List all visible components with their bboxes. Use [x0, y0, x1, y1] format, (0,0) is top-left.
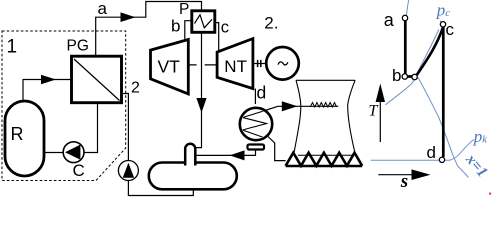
svg-text:1: 1 — [7, 37, 18, 58]
svg-text:a: a — [98, 0, 108, 18]
condenser — [240, 108, 272, 140]
arrow down on steam line — [196, 98, 206, 113]
basin fill zigzag — [286, 153, 363, 166]
svg-text:P: P — [179, 1, 189, 18]
svg-text:T: T — [369, 103, 379, 120]
cooling tower shell — [294, 80, 355, 152]
svg-text:s: s — [400, 171, 408, 192]
dashed boundary of primary circuit box 1 — [2, 31, 126, 181]
svg-text:c: c — [221, 19, 229, 37]
cycle line c-d — [442, 27, 445, 157]
svg-text:b: b — [392, 66, 401, 85]
svg-text:C: C — [73, 161, 85, 180]
pump C — [63, 142, 84, 163]
main steam wire a — [96, 2, 202, 57]
svg-text:NT: NT — [224, 57, 247, 76]
steam generator PG — [72, 56, 122, 102]
blue isobar p_k — [371, 140, 474, 161]
shaft VT-NT — [188, 64, 217, 66]
cooling water return to basin — [268, 137, 286, 161]
condensate tank — [149, 163, 237, 190]
valve P box — [192, 11, 215, 33]
T axis — [379, 101, 381, 142]
node c — [440, 22, 445, 27]
wire b stub — [185, 21, 192, 41]
feed pump — [118, 161, 138, 181]
cycle line b'-c reheat — [417, 28, 443, 75]
condensate line to tank — [195, 150, 256, 156]
blue isobar p_c — [440, 21, 444, 27]
reactor vessel R — [5, 101, 44, 176]
svg-text:2: 2 — [131, 80, 140, 97]
node b — [402, 74, 407, 79]
arrow on steam wire — [121, 12, 136, 22]
blue saturation dome with x=1 branch — [386, 77, 469, 177]
stray magenta pixel — [489, 193, 491, 195]
feedwater line tank to pump to PG — [122, 94, 194, 196]
wire R top to PG — [23, 80, 71, 102]
svg-text:R: R — [11, 124, 24, 144]
svg-text:c: c — [446, 20, 455, 39]
svg-text:2.: 2. — [264, 14, 278, 33]
cycle line b-b' — [405, 75, 415, 78]
shaft NT-generator with coupling — [253, 63, 266, 65]
blue isobar through a — [405, 0, 409, 76]
steam line down through valve to tank — [195, 33, 202, 148]
svg-text:a: a — [384, 10, 395, 30]
spray nozzles zigzag — [310, 103, 336, 108]
s axis — [378, 174, 413, 176]
basin water line — [298, 154, 353, 156]
node d — [439, 157, 444, 162]
turbine NT — [217, 39, 253, 89]
node a — [402, 15, 407, 20]
wire c stub — [215, 23, 219, 52]
node b' — [412, 74, 417, 79]
basin bottom line — [286, 165, 363, 168]
condenser hotwell base — [248, 145, 265, 150]
arrow into PG — [41, 75, 56, 84]
svg-text:VT: VT — [158, 57, 181, 77]
wire NT exhaust d to condenser — [254, 89, 256, 104]
svg-text:d: d — [427, 143, 436, 162]
svg-text:d: d — [257, 83, 267, 103]
svg-text:PG: PG — [67, 38, 89, 55]
turbine VT — [151, 40, 189, 94]
arrow into tank — [230, 150, 245, 160]
generator G — [266, 47, 299, 80]
cooling water line condenser to tower spray — [264, 106, 339, 111]
cycle line a-b — [404, 21, 407, 75]
wire pump C to R — [44, 152, 63, 154]
wire PG bottom down — [84, 103, 98, 153]
svg-text:b: b — [171, 17, 180, 36]
tank neck — [185, 144, 195, 166]
